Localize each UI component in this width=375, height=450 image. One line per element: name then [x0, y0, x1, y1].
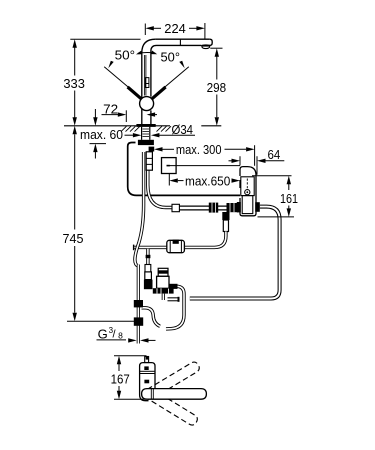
svg-text:G: G — [98, 326, 108, 341]
svg-text:167: 167 — [111, 371, 130, 386]
svg-text:161: 161 — [280, 191, 298, 206]
svg-text:745: 745 — [63, 231, 84, 246]
svg-text:224: 224 — [164, 21, 186, 36]
svg-text:50°: 50° — [161, 50, 181, 65]
svg-text:max. 60: max. 60 — [80, 127, 123, 142]
svg-text:64: 64 — [268, 147, 281, 162]
svg-text:298: 298 — [207, 80, 227, 95]
svg-text:50°: 50° — [115, 47, 135, 62]
svg-text:333: 333 — [63, 76, 85, 91]
svg-text:Ø34: Ø34 — [172, 122, 194, 137]
svg-text:max.650: max.650 — [185, 174, 230, 189]
svg-text:max. 300: max. 300 — [176, 142, 222, 157]
svg-text:8: 8 — [118, 330, 123, 340]
